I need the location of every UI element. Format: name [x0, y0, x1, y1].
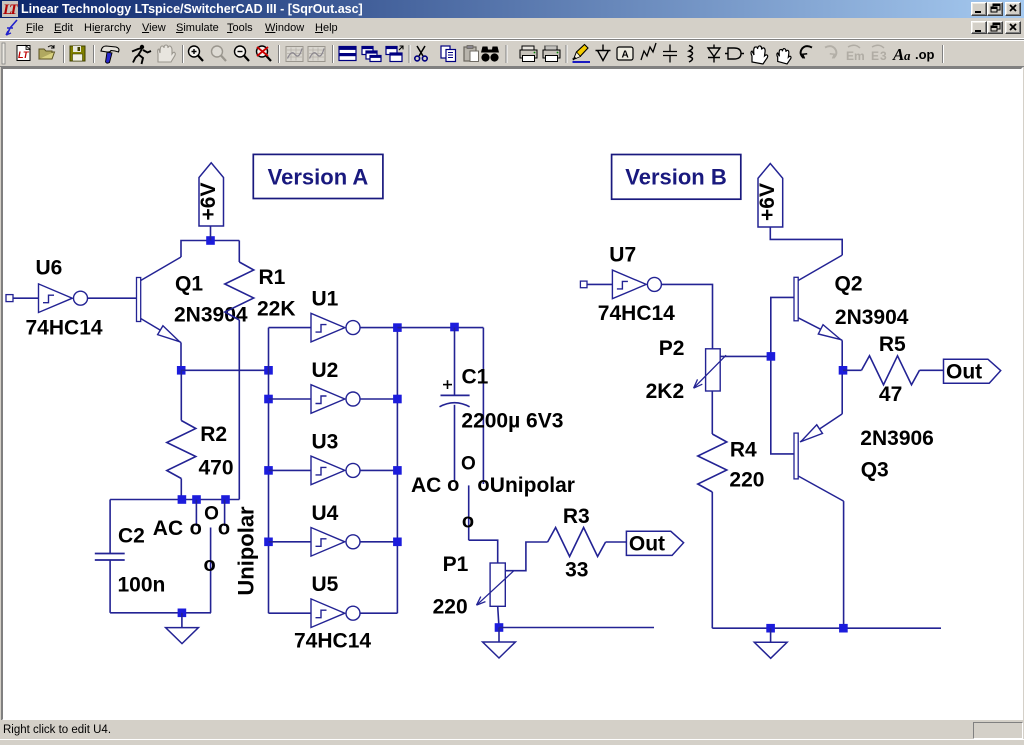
junction	[178, 609, 187, 618]
junction	[264, 366, 273, 375]
wire (right drop)	[482, 328, 484, 484]
wire (switch top row)	[110, 499, 239, 501]
junction	[264, 466, 273, 475]
input port (to U6)	[6, 295, 13, 302]
resistor R5	[843, 369, 862, 371]
input port (to U7)	[580, 281, 587, 288]
svg-text:U4: U4	[312, 502, 339, 525]
svg-text:Version A: Version A	[268, 164, 369, 189]
wire (Q2 emitter node)	[841, 340, 843, 414]
wire	[88, 297, 137, 299]
inverter U4	[311, 528, 360, 557]
svg-text:74HC14: 74HC14	[26, 317, 103, 340]
svg-text:47: 47	[879, 383, 902, 406]
svg-text:Q1: Q1	[175, 272, 203, 295]
inverter U1	[311, 313, 360, 342]
wire	[269, 612, 312, 614]
wire	[361, 541, 398, 543]
wire	[181, 369, 269, 371]
svg-text:2K2: 2K2	[646, 380, 685, 403]
wire (Q1 emitter down)	[180, 343, 182, 371]
svg-text:o: o	[462, 511, 474, 533]
svg-text:Out: Out	[629, 533, 665, 556]
svg-text:U6: U6	[36, 257, 63, 280]
transistor Q2	[794, 255, 842, 340]
wire	[210, 226, 212, 241]
svg-text:AC: AC	[153, 517, 183, 540]
svg-text:+6V: +6V	[197, 183, 220, 221]
junction	[450, 323, 459, 332]
svg-text:o: o	[203, 554, 215, 576]
capacitor C1 (polarized)	[440, 328, 470, 482]
wire (R4 to rail)	[711, 492, 713, 628]
svg-text:33: 33	[565, 559, 588, 582]
svg-text:R2: R2	[200, 423, 227, 446]
svg-text:LT: LT	[18, 50, 30, 60]
power flag +6V (version B)	[758, 164, 783, 228]
svg-text:2200µ 6V3: 2200µ 6V3	[461, 410, 563, 433]
junction	[393, 323, 402, 332]
transistor Q1	[137, 257, 182, 343]
wire (Q1 collector to +6V rail)	[181, 241, 239, 258]
svg-text:U1: U1	[312, 288, 339, 311]
junction	[264, 538, 273, 547]
bus wire (inverter inputs)	[268, 328, 270, 614]
svg-text:C2: C2	[118, 524, 145, 547]
svg-text:P1: P1	[443, 553, 469, 576]
junction	[495, 623, 504, 632]
resistor R4	[711, 391, 713, 434]
wire	[587, 283, 612, 285]
wire	[606, 541, 627, 543]
capacitor C2	[95, 500, 125, 613]
junction	[206, 236, 215, 245]
potentiometer P1	[469, 540, 548, 627]
resistor R1	[238, 241, 240, 263]
junction	[177, 366, 186, 375]
svg-text:o: o	[447, 474, 459, 496]
wire	[361, 398, 398, 400]
wire	[397, 327, 483, 329]
resistor R3	[548, 528, 606, 557]
svg-text:A: A	[892, 45, 904, 64]
svg-text:2N3904: 2N3904	[835, 306, 909, 329]
wire (switch pole)	[468, 485, 470, 540]
svg-text:O: O	[204, 504, 219, 525]
inverter U7	[612, 270, 661, 299]
svg-text:U7: U7	[609, 243, 636, 266]
svg-text:U2: U2	[312, 359, 339, 382]
svg-text:C1: C1	[462, 365, 489, 388]
svg-text:o: o	[477, 474, 489, 496]
svg-text:R5: R5	[879, 333, 906, 356]
wire (Q3 collector to rail)	[843, 501, 845, 628]
junction	[178, 495, 187, 504]
wire	[361, 327, 398, 329]
box Version A label	[253, 154, 383, 198]
box Version B label	[612, 155, 741, 200]
bus wire (inverter outputs)	[396, 328, 398, 614]
inverter U2	[311, 385, 360, 414]
svg-text:100n: 100n	[118, 574, 166, 597]
svg-text:o: o	[218, 517, 230, 539]
wire (switch contact stub)	[224, 500, 226, 527]
svg-text:U3: U3	[312, 430, 339, 453]
junction	[767, 352, 776, 361]
junction	[221, 495, 230, 504]
junction	[393, 395, 402, 404]
svg-text:3: 3	[880, 49, 887, 63]
svg-text:Q3: Q3	[861, 458, 889, 481]
potentiometer P2	[694, 349, 771, 391]
wire (ground rail A)	[499, 627, 654, 629]
wire (base bus Q2-Q3)	[771, 297, 794, 454]
svg-text:P2: P2	[659, 337, 685, 360]
svg-text:+6V: +6V	[756, 183, 779, 221]
wire (bottom)	[110, 612, 211, 614]
inverter U5	[311, 599, 360, 628]
resistor R2	[180, 370, 182, 420]
wire	[361, 469, 398, 471]
junction	[839, 624, 848, 633]
svg-text:470: 470	[199, 456, 234, 479]
output port Out (version B)	[944, 359, 1001, 383]
svg-text:E: E	[846, 49, 854, 63]
svg-text:a: a	[904, 48, 911, 63]
wire (U7 out to P2)	[661, 284, 712, 348]
junction	[264, 395, 273, 404]
transistor Q3	[794, 414, 844, 501]
wire	[269, 469, 312, 471]
svg-text:22K: 22K	[257, 298, 296, 321]
svg-text:220: 220	[433, 596, 468, 619]
svg-text:A: A	[622, 50, 629, 61]
svg-text:R3: R3	[563, 505, 590, 528]
wire (switch pole)	[210, 528, 212, 613]
wire	[269, 541, 312, 543]
svg-text:Q2: Q2	[835, 272, 863, 295]
wire	[269, 327, 312, 329]
output port Out (version A)	[626, 531, 683, 555]
inverter U6	[39, 284, 88, 313]
svg-text:O: O	[461, 454, 476, 475]
svg-text:R4: R4	[730, 438, 757, 461]
svg-text:R1: R1	[259, 266, 286, 289]
svg-text:74HC14: 74HC14	[294, 630, 371, 653]
svg-text:Unipolar: Unipolar	[490, 474, 575, 497]
ground	[166, 613, 199, 644]
power flag +6V (version A)	[199, 163, 224, 226]
svg-text:o: o	[190, 517, 202, 539]
svg-text:AC: AC	[411, 474, 441, 497]
junction	[393, 466, 402, 475]
junction	[839, 366, 848, 375]
wire	[13, 297, 39, 299]
wire (switch contact stub)	[195, 500, 197, 527]
ground	[483, 628, 516, 659]
wire	[269, 398, 312, 400]
svg-text:220: 220	[729, 469, 764, 492]
junction	[393, 538, 402, 547]
svg-text:Out: Out	[946, 361, 982, 384]
wire (+6V to Q2)	[770, 227, 842, 255]
svg-text:E: E	[871, 49, 879, 63]
wire (ground rail B)	[712, 627, 941, 629]
inverter U3	[311, 456, 360, 485]
svg-text:74HC14: 74HC14	[598, 302, 675, 325]
ground	[754, 628, 787, 658]
junction	[766, 624, 775, 633]
wire (R1 bottom to switch row)	[238, 320, 240, 500]
svg-text:Unipolar: Unipolar	[234, 506, 259, 596]
svg-text:.op: .op	[915, 47, 935, 62]
junction	[192, 495, 201, 504]
svg-text:Version B: Version B	[625, 165, 726, 190]
svg-text:U5: U5	[312, 573, 339, 596]
svg-text:2N3906: 2N3906	[860, 427, 934, 450]
wire	[361, 612, 398, 614]
svg-text:m: m	[854, 49, 865, 63]
